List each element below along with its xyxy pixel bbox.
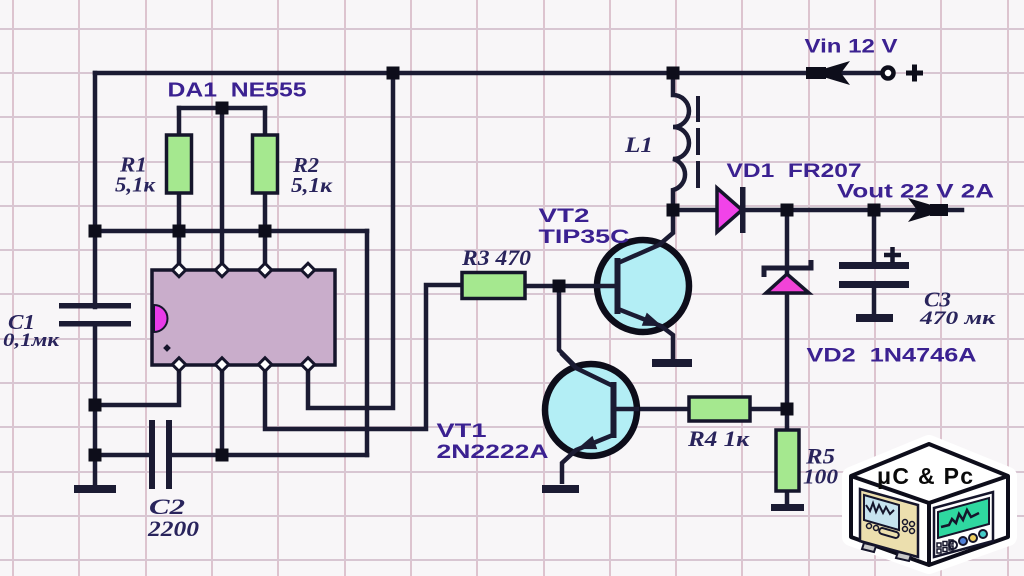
zener diode VD2 [764,260,811,293]
wire rail y231 [95,229,367,234]
ground R5 [771,504,804,511]
ground VT1 emitter [542,485,579,493]
junction pin2 / C2 node [216,449,229,462]
svg-text:VT2: VT2 [539,206,590,227]
junction R4 / R5 / VD2 [781,403,794,416]
wire IC pin4 to top rail [308,73,393,408]
wire y108 R1-R2 [179,106,265,111]
wire IC pin3 to R3 [265,285,462,429]
ground C3 [856,314,893,322]
resistor R1 [167,135,192,193]
svg-text:R4 1к: R4 1к [687,426,750,451]
wire left vertical above C1 [93,73,98,307]
wire left vertical below C1 [93,326,98,488]
svg-text:2200: 2200 [147,516,199,541]
junction L1 on +12V rail [667,67,680,80]
wire R2 top [263,108,268,136]
svg-text:5,1к: 5,1к [291,173,333,197]
ground VT2 emitter [652,359,692,367]
svg-text:Vout 22 V 2A: Vout 22 V 2A [837,182,994,203]
svg-text:VD2 1N4746A: VD2 1N4746A [807,346,977,367]
svg-text:470 мк: 470 мк [919,308,997,329]
capacitor C3 [839,262,909,288]
wire C2 right to x367 [171,453,367,458]
junction R1-R2 top node [216,102,229,115]
wire R5 bottom [785,490,790,507]
wire vertical x367 [365,231,370,455]
junction pin4 riser on +12V rail [387,67,400,80]
svg-text:0,1мк: 0,1мк [3,330,61,351]
junction R3 / VT2 base / VT1 collector [553,280,566,293]
diode VD1 [717,187,746,233]
plus Vin [906,65,923,82]
svg-text:VT1: VT1 [437,421,488,442]
svg-text:R3 470: R3 470 [461,245,531,270]
wire x222 to IC pin [220,108,225,268]
junction R1 bottom node [173,225,186,238]
svg-text:L1: L1 [624,132,653,157]
wire L1 to VD1 [673,208,718,213]
svg-text:DA1 NE555: DA1 NE555 [168,80,307,102]
junction VD2 on Vout rail [781,204,794,217]
logo cube [851,444,1008,565]
capacitor C1 [59,303,131,327]
IC pin diamonds bottom [172,358,314,371]
wire VD1 to Vout [744,208,962,213]
junction pin1 wire / left rail [89,399,102,412]
svg-text:TIP35C: TIP35C [539,227,630,248]
wire C3 bottom [872,287,877,317]
resistor R2 [253,135,278,193]
wire R2 bottom to pin [263,193,268,268]
wire VD2 branch vertical [785,210,790,409]
junction L1 / VD1 / VT2 collector [667,204,680,217]
wire VT1 base to R4 [616,407,690,412]
capacitor C2 [149,420,172,489]
wire R4 to junction [750,407,787,412]
wire node to C2 left [95,453,152,458]
wire R1 bottom to pin [177,193,182,268]
junction left rail / y231 rail [89,225,102,238]
svg-text:VD1 FR207: VD1 FR207 [727,161,862,182]
svg-text:Vin 12 V: Vin 12 V [805,37,898,58]
plus polarity C3 [884,247,901,263]
inductor L1 [673,73,698,210]
wire IC pin1 to left rail [95,366,179,405]
Vout output arrow [908,198,948,222]
junction R2 bottom node [259,225,272,238]
wire C3 top [872,210,877,265]
logo left oscilloscope [860,489,918,561]
wire VT1 collector riser [559,286,576,367]
svg-text:μC & Pc: μC & Pc [877,463,973,489]
wire R1 top [177,108,182,136]
svg-text:5,1к: 5,1к [115,173,156,197]
Vin input arrow [810,61,850,85]
resistor R4 [689,397,750,421]
ground below C1 [74,485,116,493]
transistor VT2 [594,212,689,360]
junction C3 on Vout rail [868,204,881,217]
transistor VT1 [545,353,639,484]
wire IC pin2 down [220,366,225,455]
junction C1 / C2 node [89,449,102,462]
IC DA1 NE555 body [152,270,335,365]
wire R3 to VT2 base [525,284,617,289]
svg-text:100: 100 [803,465,839,489]
resistor R3 [462,273,525,299]
svg-text:2N2222A: 2N2222A [437,442,549,463]
resistor R5 [776,430,799,491]
wire R5 top [785,409,790,432]
logo right instrument [934,492,993,557]
node Vin terminal [883,68,894,79]
IC pin diamonds top [172,263,314,276]
wire top +12V rail [95,71,880,76]
